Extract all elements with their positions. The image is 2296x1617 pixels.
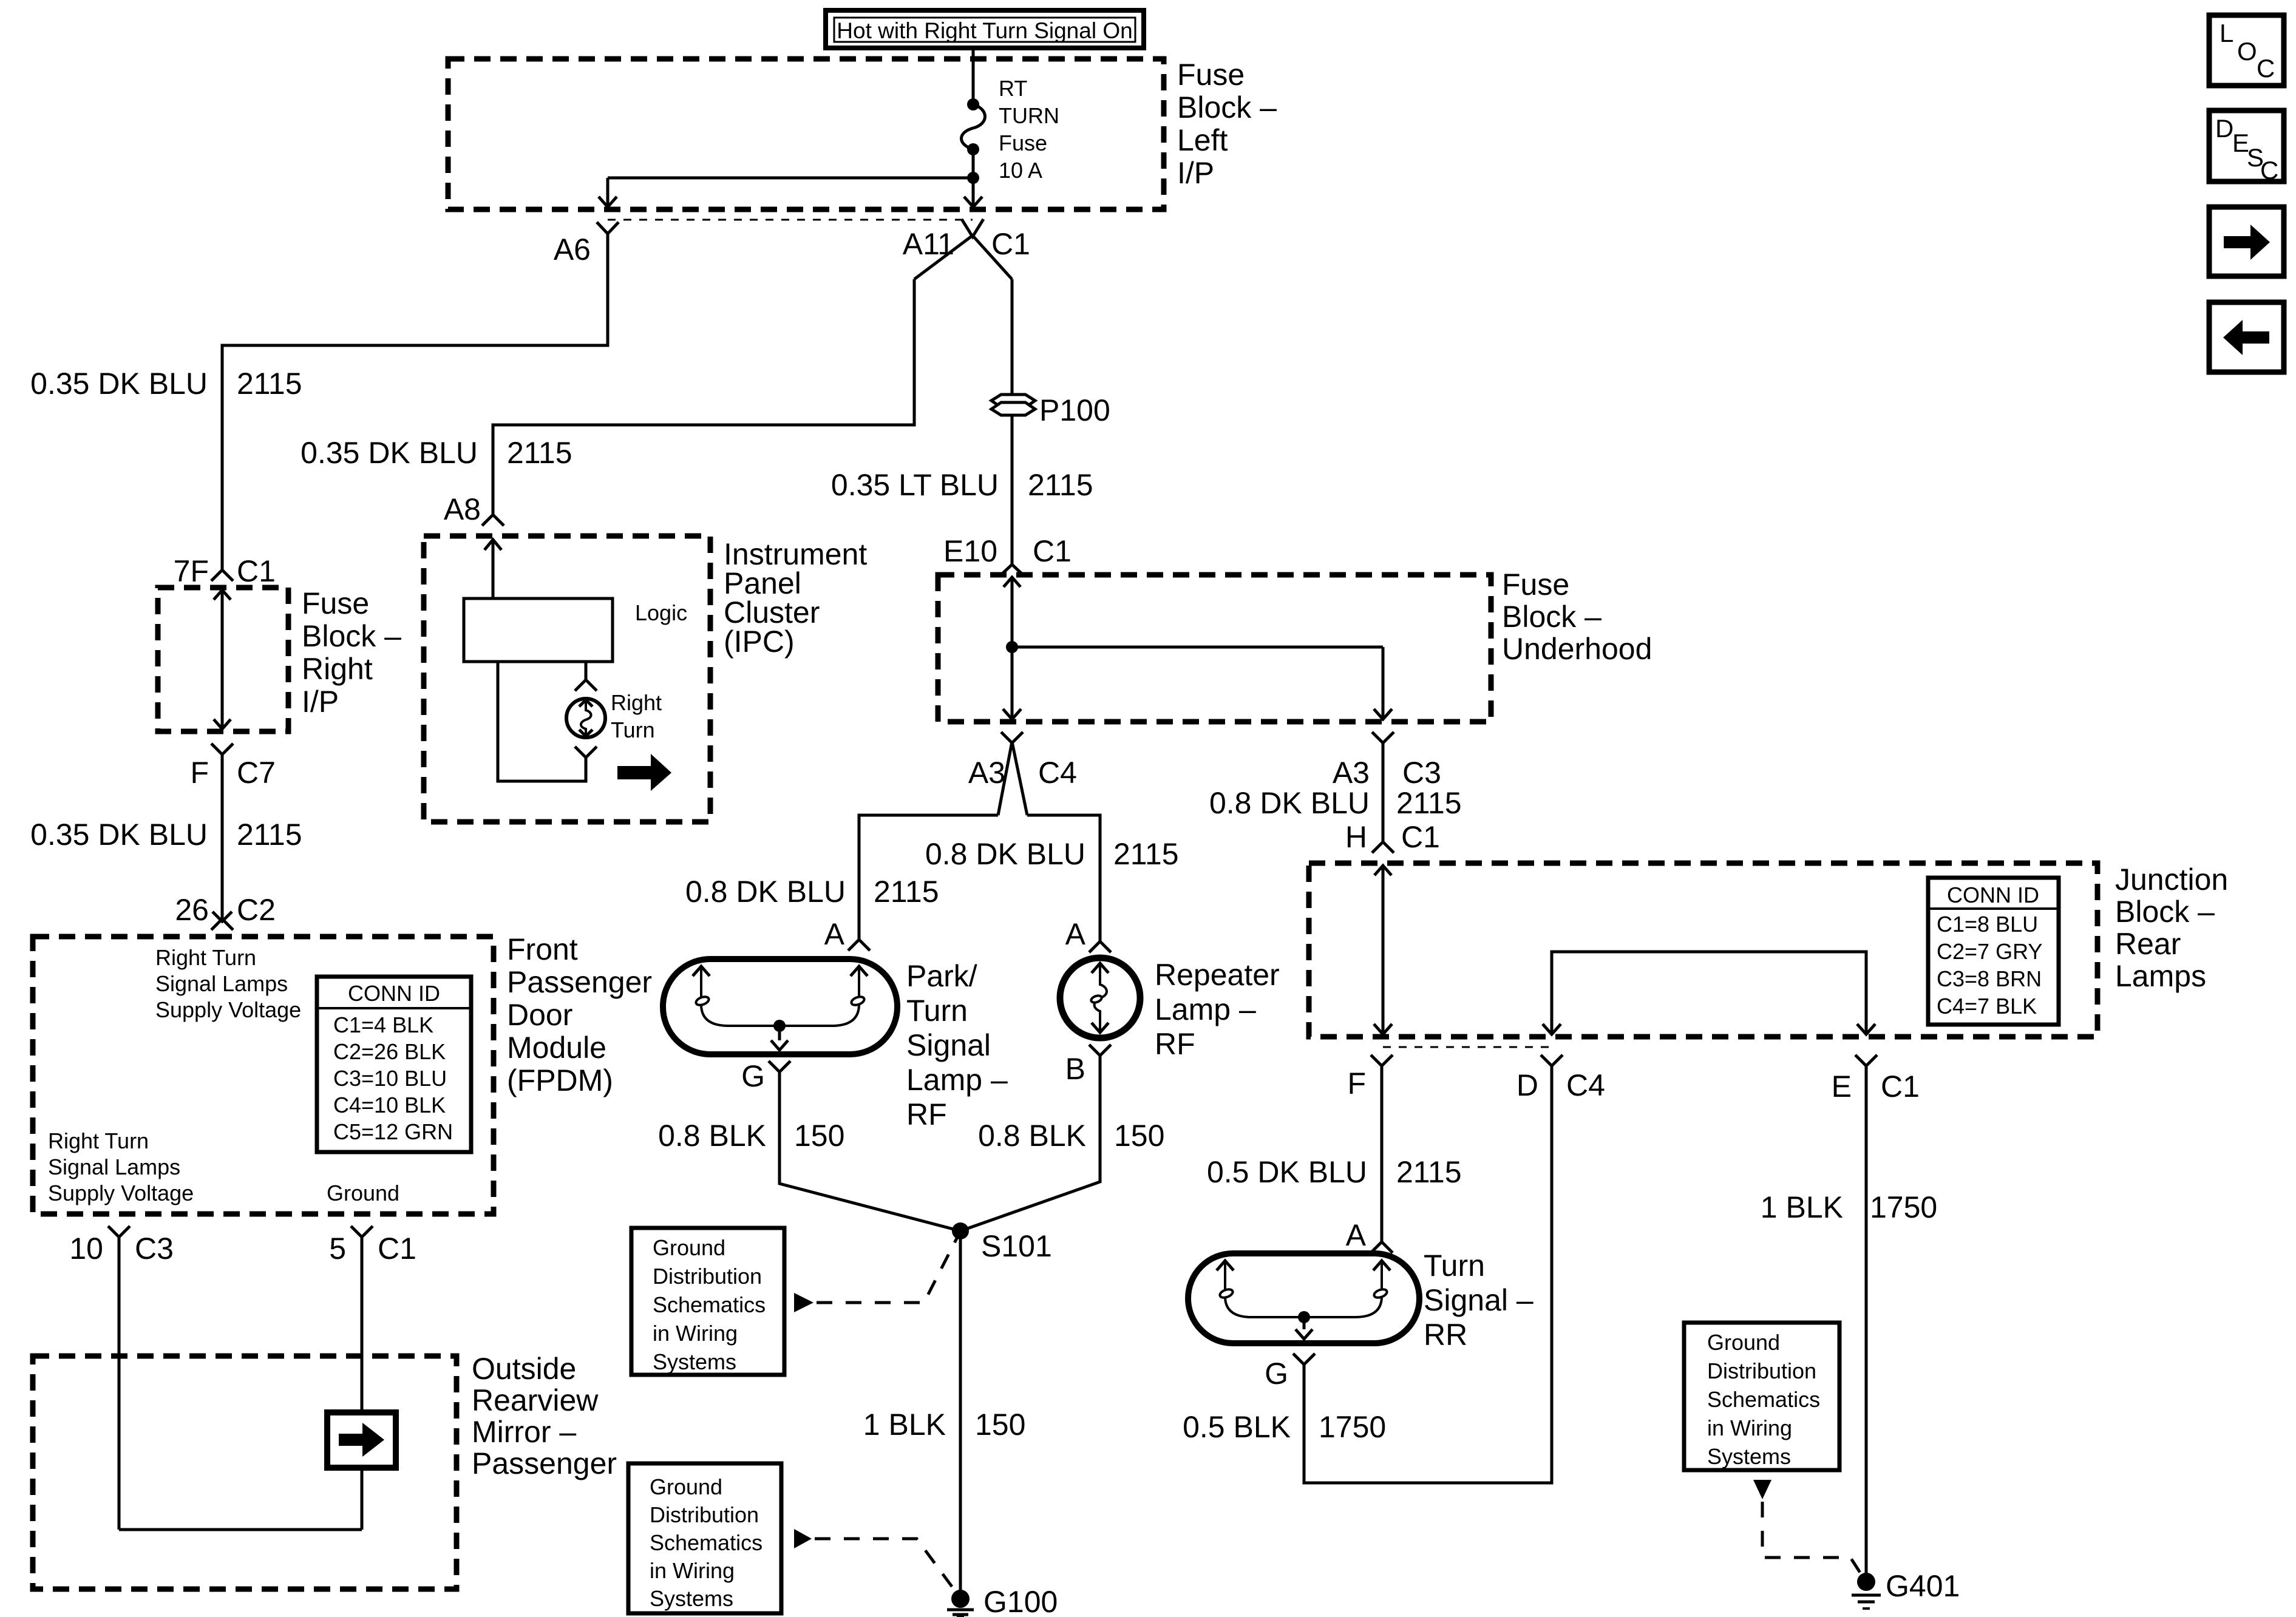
wire: A6 to 7F/C1 [222, 234, 608, 570]
svg-text:0.8 BLK: 0.8 BLK [978, 1119, 1086, 1153]
svg-text:150: 150 [794, 1119, 844, 1153]
wire: junction internal H to F with arrows [1382, 866, 1385, 1034]
wire: RR lamp ground to D [1304, 1066, 1552, 1483]
feed title box: Hot with Right Turn Signal On [826, 10, 1144, 48]
reference pointer to G401 [1753, 1480, 1771, 1499]
svg-text:0.35 LT BLU: 0.35 LT BLU [831, 468, 999, 502]
svg-text:L: L [2220, 19, 2233, 47]
svg-text:2115: 2115 [237, 367, 302, 401]
inline connector P100 [991, 395, 1035, 415]
svg-text:0.5 DK BLU: 0.5 DK BLU [1207, 1155, 1367, 1189]
connector: indicator bottom [575, 747, 597, 758]
repeater lamp RF [1060, 958, 1140, 1038]
ground G100 [947, 1590, 974, 1617]
svg-text:1750: 1750 [1870, 1190, 1937, 1224]
svg-text:C1: C1 [1881, 1070, 1920, 1103]
connector E10 C1 [1002, 564, 1022, 574]
svg-text:A11: A11 [903, 227, 954, 261]
svg-text:A: A [824, 917, 845, 951]
legend right arrow box [2209, 207, 2284, 276]
connector F [1371, 1055, 1393, 1066]
wire: to park/turn lamp A [859, 815, 998, 940]
svg-text:2115: 2115 [1396, 786, 1462, 820]
legend LOC box [2209, 15, 2284, 86]
wire: horizontal feed to A6 [608, 177, 973, 180]
ground distribution schematics box 2 [628, 1463, 781, 1613]
connector 10 C3 [108, 1226, 130, 1237]
ground G401 [1852, 1573, 1881, 1609]
wire: to repeater lamp A [1027, 815, 1100, 941]
connector 5 C1 [351, 1226, 373, 1237]
ground distribution schematics box 1 [631, 1228, 784, 1375]
svg-text:Hot with Right Turn Signal On: Hot with Right Turn Signal On [837, 18, 1132, 43]
splice S101 [952, 1222, 969, 1239]
svg-text:C4: C4 [1038, 756, 1077, 790]
svg-text:C1: C1 [237, 554, 276, 588]
wire: mirror ground 5/C1 [361, 1237, 364, 1412]
connector D C4 [1541, 1055, 1563, 1066]
svg-text:2115: 2115 [507, 436, 572, 470]
svg-text:C2: C2 [237, 893, 276, 927]
svg-text:F: F [1347, 1066, 1366, 1100]
wire: A3/C3 to H/C1 [1382, 743, 1385, 842]
svg-text:1 BLK: 1 BLK [1761, 1190, 1843, 1224]
outside rearview mirror passenger dashed box [33, 1356, 457, 1589]
thin dashed connector line F-D [1383, 1046, 1552, 1048]
svg-text:C1: C1 [1033, 534, 1072, 568]
wire: drop to A11 with arrow [972, 178, 975, 205]
svg-text:G: G [741, 1059, 765, 1093]
connector A (repeater lamp) [1089, 941, 1111, 952]
svg-text:C: C [2260, 156, 2278, 185]
svg-text:2115: 2115 [237, 818, 302, 852]
svg-text:7F: 7F [174, 554, 209, 588]
svg-text:B: B [1065, 1052, 1085, 1086]
connector B (repeater lamp) [1089, 1045, 1111, 1056]
ground distribution schematics box 3 [1684, 1323, 1839, 1470]
svg-text:2115: 2115 [1113, 837, 1179, 871]
svg-text:0.35 DK BLU: 0.35 DK BLU [30, 818, 208, 852]
connector F C7 [211, 744, 233, 754]
right turn indicator lamp [566, 699, 605, 737]
connector E C1 [1855, 1055, 1877, 1066]
legend DESC box [2209, 110, 2284, 185]
svg-text:E: E [1832, 1070, 1852, 1103]
wire: underhood horizontal to A3/C3 [1012, 646, 1383, 649]
svg-text:P100: P100 [1039, 393, 1110, 427]
svg-text:C3: C3 [1402, 756, 1441, 790]
svg-text:0.35 DK BLU: 0.35 DK BLU [30, 367, 208, 401]
connector A11 C1 (splice into two branches) [914, 219, 1012, 279]
svg-text:C4: C4 [1566, 1068, 1605, 1102]
svg-text:G: G [1265, 1357, 1288, 1391]
fuse block underhood dashed box [938, 575, 1491, 722]
svg-text:0.8 DK BLU: 0.8 DK BLU [685, 875, 846, 909]
svg-text:A: A [1065, 917, 1086, 951]
svg-text:A8: A8 [444, 492, 481, 526]
svg-text:26: 26 [175, 893, 209, 927]
logic box U1 [464, 598, 613, 662]
svg-text:0.35 DK BLU: 0.35 DK BLU [301, 436, 478, 470]
turn signal lamp RR [1188, 1253, 1419, 1343]
svg-text:G100: G100 [983, 1585, 1058, 1617]
wire: logic to indicator loop [498, 662, 586, 781]
svg-text:CONN ID: CONN ID [348, 981, 440, 1006]
svg-text:2115: 2115 [874, 875, 939, 909]
svg-text:C3: C3 [135, 1232, 174, 1266]
wire: park lamp ground to S101 [779, 1072, 960, 1231]
reference pointer to S101 [794, 1293, 813, 1312]
connector A3 C4 (splice into two branches) [998, 732, 1027, 815]
svg-text:C: C [2257, 54, 2275, 83]
svg-text:Logic: Logic [635, 600, 687, 625]
conn id table FPDM [317, 977, 471, 1152]
connector A (turn signal RR) [1371, 1242, 1393, 1253]
wire: junction internal D to E with arrows [1552, 952, 1866, 1034]
instrument panel cluster IPC dashed box [424, 536, 710, 822]
svg-text:2115: 2115 [1396, 1155, 1462, 1189]
wire+arrow: E10 entry into underhood [1004, 577, 1021, 587]
wire: mirror lamp to ground bus [361, 1468, 364, 1530]
wire: mirror internal ground bus [119, 1528, 362, 1531]
svg-text:A3: A3 [968, 756, 1005, 790]
svg-text:C1: C1 [991, 227, 1030, 261]
wire: S101 to G100 [959, 1231, 962, 1599]
svg-text:Ground: Ground [327, 1181, 399, 1205]
svg-text:A: A [1346, 1218, 1367, 1252]
connector A (park/turn lamp) [848, 940, 870, 951]
wire: hot feed into fuse [972, 48, 975, 104]
junction: fuse output node [967, 172, 979, 184]
svg-text:C1: C1 [378, 1232, 416, 1266]
park/turn signal lamp RF [663, 959, 897, 1054]
svg-text:0.8 BLK: 0.8 BLK [658, 1119, 766, 1153]
svg-text:D: D [2215, 114, 2233, 143]
connector 26 C2 [211, 919, 233, 930]
wire: right I/P internal with arrows [221, 590, 224, 729]
svg-text:150: 150 [1114, 1119, 1164, 1153]
svg-text:0.5 BLK: 0.5 BLK [1183, 1410, 1291, 1444]
connector: indicator top [575, 680, 597, 691]
connector A3 C3 [1372, 732, 1394, 743]
wire: F to RR lamp A [1381, 1066, 1384, 1242]
svg-text:A3: A3 [1333, 756, 1370, 790]
svg-text:1 BLK: 1 BLK [863, 1408, 946, 1442]
connector H C1 [1372, 842, 1394, 853]
conn id table junction block [1928, 878, 2059, 1025]
svg-text:F: F [190, 756, 209, 790]
wire+arrow: drop to A3/C3 [1382, 647, 1385, 717]
wire+arrow: A8 entry into IPC logic [492, 540, 495, 598]
junction: underhood split node [1006, 641, 1018, 653]
thin dashed connector line A6-A11 [608, 219, 973, 221]
connector A8 [482, 515, 504, 526]
svg-text:10: 10 [69, 1232, 103, 1266]
wire: mirror signal 10/C3 [118, 1237, 121, 1530]
wire+arrow: drop to A3/C4 [1011, 647, 1014, 717]
svg-text:2115: 2115 [1028, 468, 1093, 502]
svg-text:C1: C1 [1401, 820, 1440, 854]
svg-text:CONN ID: CONN ID [1947, 883, 2039, 907]
wire: repeater ground to S101 [960, 1056, 1100, 1231]
mirror turn signal lamp box with arrow icon [327, 1412, 396, 1468]
connector G (park/turn lamp) [769, 1061, 790, 1072]
connector 7F C1 [211, 570, 233, 581]
wire: right branch A11 to P100/E10 [1011, 279, 1014, 564]
svg-text:E10: E10 [943, 534, 997, 568]
connector A6 [597, 222, 619, 234]
svg-text:5: 5 [329, 1232, 346, 1266]
fuse block left I/P dashed box [448, 59, 1164, 209]
wire: F/C7 to 26/C2 [221, 754, 224, 919]
svg-text:0.8 DK BLU: 0.8 DK BLU [1209, 786, 1370, 820]
svg-text:S101: S101 [981, 1229, 1052, 1263]
svg-text:O: O [2237, 37, 2257, 66]
fuse RT TURN 10 A [962, 98, 985, 155]
svg-text:1750: 1750 [1319, 1410, 1386, 1444]
svg-text:150: 150 [975, 1408, 1025, 1442]
icon: right turn solid arrow [617, 754, 671, 791]
wire: drop to A6 with arrow [606, 178, 610, 205]
wire: left branch A11 to A8 [493, 279, 914, 515]
wire: E to G401 [1865, 1066, 1868, 1582]
svg-text:0.8 DK BLU: 0.8 DK BLU [925, 837, 1085, 871]
svg-text:G401: G401 [1886, 1569, 1960, 1603]
reference pointer to G100 [794, 1529, 812, 1548]
svg-text:D: D [1517, 1068, 1538, 1102]
svg-text:C7: C7 [237, 756, 276, 790]
junction block rear lamps dashed box [1309, 863, 2097, 1037]
svg-text:A6: A6 [554, 232, 591, 266]
svg-text:H: H [1345, 820, 1367, 854]
legend left arrow box [2209, 302, 2284, 372]
wire: logic to indicator top [585, 662, 588, 680]
fuse block right I/P dashed box [158, 588, 288, 731]
front passenger door module FPDM dashed box [33, 937, 494, 1214]
wire: fuse output [972, 149, 975, 178]
connector G (turn signal RR) [1293, 1354, 1315, 1364]
